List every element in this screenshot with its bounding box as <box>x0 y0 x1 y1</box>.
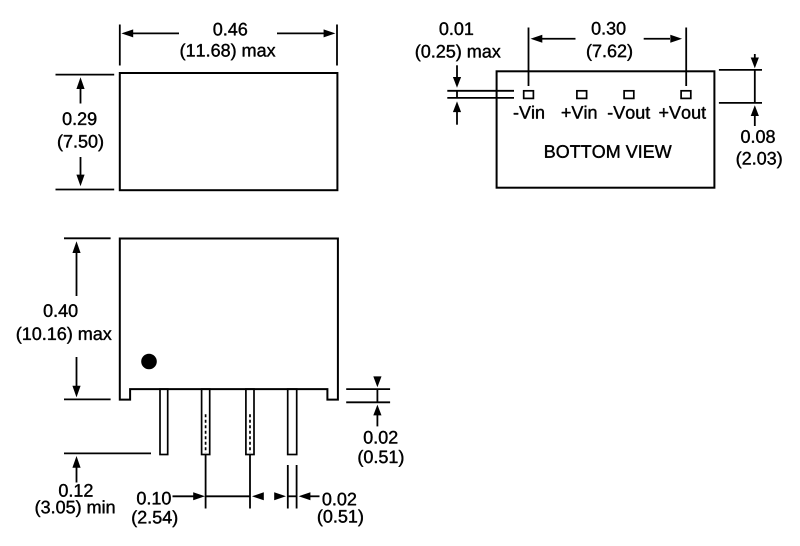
dimension 0.30 mm label <box>587 44 632 61</box>
dimension 0.08 value label <box>741 130 775 143</box>
standoff lower stem <box>376 414 378 426</box>
dimension 0.29 extension line bottom <box>56 189 115 191</box>
pin thickness line bottom <box>447 97 514 99</box>
standoff arrow down <box>373 376 381 387</box>
pin width line right <box>296 465 298 509</box>
pin width tail <box>310 495 320 497</box>
dimension 0.08 extension line top <box>719 69 762 71</box>
bottom view caption <box>545 145 671 158</box>
front view pin 3 <box>246 389 254 454</box>
pin 3 center line <box>249 455 251 509</box>
pin width line left <box>287 465 289 509</box>
standoff connector <box>376 389 378 402</box>
dimension 0.46 line right segment <box>277 32 324 34</box>
dimension 0.46 value label <box>214 23 248 36</box>
dimension 0.08 lower stem <box>754 115 756 126</box>
dimension 0.30 value label <box>592 22 626 35</box>
dimension 0.30 arrow left <box>531 35 543 43</box>
front view pin 4 <box>288 389 297 454</box>
dimension 0.29 value label <box>63 112 97 125</box>
dimension 0.10 mm label <box>132 510 177 527</box>
dimension 0.40 extension line top <box>64 237 111 239</box>
dimension 0.12 arrow up <box>72 456 80 468</box>
bottom view pin pad 2 <box>577 91 587 99</box>
dimension 0.40 extension line bottom <box>64 398 111 400</box>
dimension 0.12 mm label <box>36 500 115 517</box>
dimension 0.08 arrow down <box>751 58 759 69</box>
dimension 0.12 extension line <box>64 452 151 454</box>
dimension 0.02 pin width mm label <box>318 510 363 527</box>
dimension 0.40 arrow down <box>72 386 80 398</box>
top view body <box>120 73 338 190</box>
pin 2 center line <box>205 455 207 509</box>
dimension 0.29 lower stem <box>80 157 82 176</box>
dimension 0.40 value label <box>44 304 78 317</box>
dimension 0.29 arrow down <box>76 175 84 187</box>
dimension 0.12 value label <box>59 484 92 497</box>
pin width arrow right-pointing <box>274 492 286 500</box>
dimension 0.08 mm label <box>737 152 782 169</box>
standoff line bottom <box>346 401 390 403</box>
dimension 0.01 upper stem <box>456 65 458 78</box>
pin width arrow left-pointing <box>299 492 311 500</box>
dimension 0.01 value label <box>440 22 473 35</box>
dimension 0.40 arrow up <box>72 241 80 253</box>
dimension 0.46 line left segment <box>133 32 179 34</box>
bottom view body <box>497 71 715 187</box>
dimension 0.40 lower stem <box>76 357 78 387</box>
dimension 0.10 line <box>206 495 250 497</box>
front view pin 1 <box>160 389 168 454</box>
dimension 0.08 arrow up <box>751 105 759 116</box>
dimension 0.40 mm label <box>17 327 112 344</box>
pin 2 hidden line <box>205 414 207 453</box>
dimension 0.30 line right segment <box>644 38 670 40</box>
pin label +Vin <box>562 106 596 119</box>
dimension 0.12 stem <box>76 467 78 483</box>
dimension 0.01 lower stem <box>456 111 458 125</box>
dimension 0.02 standoff mm label <box>359 450 404 467</box>
dimension 0.10 leader <box>173 495 195 497</box>
front view pin 2 <box>202 389 210 454</box>
standoff arrow up <box>373 405 381 416</box>
dimension 0.40 upper stem <box>76 252 78 296</box>
dimension 0.30 line left segment <box>542 38 576 40</box>
bottom view pin pad 3 <box>624 91 634 99</box>
pin thickness line top <box>447 90 514 92</box>
dimension 0.46 arrow right <box>324 29 336 37</box>
dimension 0.10 value label <box>137 492 171 505</box>
dimension 0.10 arrow right <box>193 492 205 500</box>
dimension 0.46 extension line right <box>336 25 338 66</box>
dimension 0.29 extension line top <box>56 74 115 76</box>
dimension 0.29 upper stem <box>80 88 82 104</box>
dimension 0.01 arrow up <box>453 101 461 112</box>
dimension 0.02 standoff value label <box>364 431 397 444</box>
dimension 0.30 extension line right <box>685 28 687 87</box>
dimension 0.10 arrow left-pointing <box>252 492 264 500</box>
dimension 0.30 arrow right <box>670 35 682 43</box>
pin width crossing line <box>288 495 297 497</box>
dimension 0.30 extension line left <box>528 28 530 87</box>
pin label -Vout <box>608 106 650 119</box>
pin label +Vout <box>659 106 706 119</box>
dimension 0.46 arrow left <box>121 29 133 37</box>
dimension 0.01 arrow down <box>453 77 461 88</box>
dimension 0.01 connector <box>456 91 458 98</box>
pin 3 hidden line <box>249 414 251 453</box>
dimension 0.29 arrow up <box>76 77 84 89</box>
dimension 0.02 pin width value label <box>323 493 356 506</box>
dimension 0.08 upper stub <box>754 54 756 58</box>
dimension 0.01 mm label <box>416 45 501 62</box>
dimension 0.46 extension line left <box>119 25 121 66</box>
dimension 0.46 mm label <box>181 44 276 61</box>
front view body outline <box>120 239 338 400</box>
dimension 0.29 mm label <box>58 135 103 152</box>
pin 1 polarity dot <box>141 354 157 370</box>
dimension 0.08 connector <box>754 70 756 103</box>
bottom view pin pad 4 <box>681 91 691 99</box>
bottom view pin pad 1 <box>524 91 534 99</box>
dimension 0.08 extension line bottom <box>719 102 762 104</box>
pin label -Vin <box>514 106 544 119</box>
standoff line top <box>346 388 390 390</box>
